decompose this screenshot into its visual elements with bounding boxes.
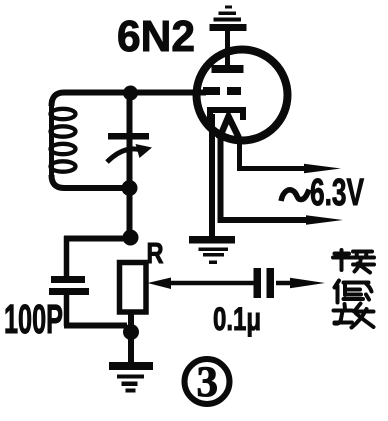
arrow upper 6.3V [304, 164, 341, 173]
label Chinese jie (connect) [333, 250, 374, 273]
variable capacitor C1 arrow [136, 144, 153, 158]
node junction R top [123, 230, 139, 246]
inductor L1 spine [49, 100, 54, 180]
wire R bottom [128, 310, 134, 362]
wire coupling left [167, 281, 255, 286]
label Chinese di (low) [335, 281, 372, 303]
tube U1 envelope [197, 50, 288, 141]
wire heater right leg to upper 6.3V arrow [240, 138, 309, 169]
grid (dashed) [203, 87, 220, 95]
wire top-cap lead [225, 30, 230, 66]
wire 100P bottom [64, 294, 70, 326]
label ~6.3V [281, 190, 309, 202]
resistor R1 body [120, 263, 147, 313]
node junction coil bottom [122, 180, 138, 196]
wire main vertical (varcap branch) [127, 93, 133, 240]
svg-text:0.1μ: 0.1μ [213, 301, 261, 337]
svg-text:100P: 100P [4, 296, 63, 342]
ground (cathode) [189, 236, 235, 264]
variable capacitor C1 moving plate [107, 149, 141, 162]
cathode [210, 110, 243, 120]
variable capacitor C1 top plate [108, 133, 149, 140]
anode plate [212, 65, 244, 73]
capacitor C3 0.1u plates [254, 268, 262, 298]
svg-text:6N2: 6N2 [117, 12, 195, 61]
node junction R bottom [123, 324, 139, 340]
svg-text:R: R [147, 238, 164, 270]
wire coupling right [276, 281, 294, 286]
arrow into R (coupling line) [148, 278, 172, 290]
svg-text:6.3V: 6.3V [310, 172, 364, 214]
label Chinese fang (amplifier) [334, 304, 374, 328]
arrow lower 6.3V [306, 215, 343, 224]
wire cathode to ground [209, 114, 215, 237]
heater filament [219, 117, 240, 140]
wire grid to coil (top horizontal) [52, 93, 207, 107]
capacitor C2 100P plates [51, 276, 85, 283]
svg-text:3: 3 [197, 359, 219, 406]
ground (main, below R) [109, 362, 153, 393]
wire heater left leg to lower 6.3V arrow [221, 136, 313, 220]
wire to 100P (left branch) [64, 236, 128, 242]
ground (inverted, at tube top cap) [210, 6, 247, 32]
figure number 3 (circled) [185, 359, 230, 404]
wire coil bottom [52, 175, 128, 188]
arrow to output [290, 278, 325, 288]
inductor L1 turns [51, 109, 76, 119]
node junction top (grid/coil/varcap) [123, 86, 138, 101]
